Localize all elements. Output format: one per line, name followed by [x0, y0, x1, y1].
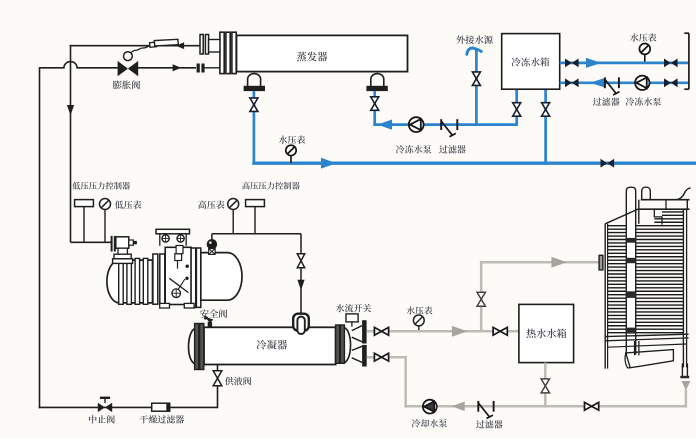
- evaporator right water nozzle: [371, 74, 384, 86]
- pipe: cooling water bottom line: [404, 356, 407, 408]
- label: condenser: [257, 340, 267, 350]
- muffler / check valve on condenser inlet: [293, 314, 309, 331]
- label: chilled water pump (top right): [626, 97, 635, 105]
- tower top deck: [641, 199, 690, 201]
- pipe: suction line bottom horizontal into compressor: [71, 241, 112, 243]
- water pressure gauge on return line: [286, 145, 296, 155]
- pipe: hot water tank bottom drop: [544, 363, 547, 408]
- tower deck slope edge: [605, 209, 638, 224]
- oil separator barrel: [201, 253, 242, 301]
- pipe: evaporator inlet drop: [373, 91, 376, 125]
- stop valve on bottom line: [104, 399, 106, 403]
- water pressure gauge on cooling line: [413, 315, 424, 326]
- safety valve on condenser: [208, 322, 212, 328]
- flow arrow left toward evaporator: [378, 120, 393, 130]
- pipe: chilled water supply line (pump suction): [373, 123, 376, 126]
- compressor suction flange: [111, 236, 113, 252]
- condenser bottom outlet cone nozzle: [352, 346, 362, 350]
- condenser left flange ring: [195, 324, 199, 370]
- tower lower frame rails: [605, 334, 688, 336]
- tower deck step notch: [654, 209, 662, 224]
- valve on top header left: [565, 59, 572, 68]
- condenser left dish head: [189, 329, 195, 364]
- pipe: make-up water drop: [475, 50, 478, 125]
- valve on make-up water line: [472, 72, 480, 86]
- valve on return header left: [565, 78, 572, 87]
- valve on evaporator outlet: [250, 98, 258, 112]
- cooling tower right wall: [682, 209, 684, 367]
- valve on condenser top outlet: [374, 327, 381, 335]
- tower riser pipe U2: [642, 187, 651, 200]
- liquid supply valve under condenser: [217, 365, 219, 409]
- strainer on return header: [604, 77, 606, 88]
- discharge shut-off valve: [297, 254, 304, 268]
- label: water pressure gauge (top right): [630, 33, 639, 41]
- label: cooling water pump: [412, 419, 421, 427]
- flow arrow right to cooling tower: [551, 257, 567, 268]
- header continuation bracket: [688, 33, 690, 89]
- label: chilled water pump: [396, 145, 405, 153]
- flow arrow left on bottom line: [452, 402, 465, 412]
- tower middle leg: [634, 341, 636, 355]
- compressor main housing: [165, 247, 191, 304]
- tower riser pipe U1: [626, 187, 635, 354]
- pipe: chilled water return header: [560, 81, 689, 84]
- evaporator liquid inlet flange: [197, 64, 200, 73]
- evaporator head plates: [220, 32, 224, 73]
- pipe: chilled water main return line: [252, 161, 696, 164]
- compressor mid flange rings: [153, 254, 158, 304]
- label: strainer (top right): [593, 97, 601, 105]
- label: low pressure controller: [72, 182, 80, 190]
- strainer on cooling bottom line: [477, 401, 479, 412]
- expansion valve: [118, 61, 128, 76]
- valve on tank left outlet: [513, 103, 521, 117]
- evaporator suction flange pair: [200, 35, 203, 55]
- compressor motor body: [107, 260, 153, 303]
- label: hot water tank: [526, 329, 536, 338]
- valve on tower riser: [477, 292, 485, 306]
- tower outlet stub: [681, 364, 683, 377]
- water flow switch on condenser: [346, 314, 358, 322]
- evaporator left water nozzle: [248, 74, 261, 86]
- expansion valve sensing head: [124, 52, 133, 61]
- pipe: discharge sensing line horizontal: [212, 233, 301, 235]
- pipe: condenser outlet top line to hot water tank: [367, 330, 519, 333]
- flow arrow down from tower outlet: [682, 381, 691, 391]
- flow arrow down to condenser: [297, 280, 304, 291]
- tower basin pan: [626, 350, 674, 368]
- valve on tank right outlet: [542, 103, 550, 117]
- pipe: suction line horizontal (evaporator to corner): [70, 45, 200, 47]
- discharge service valve on separator: [211, 239, 213, 244]
- condenser top outlet cone nozzle: [352, 326, 362, 331]
- pipe: riser to cooling tower: [480, 261, 483, 331]
- high pressure gauge: [228, 199, 239, 210]
- compressor feet: [160, 303, 170, 308]
- label: water flow switch: [336, 304, 345, 312]
- pipe: tank left outlet drop: [515, 89, 518, 126]
- valve on return header right: [664, 78, 671, 87]
- chilled water pump: [409, 117, 424, 132]
- chilled water tank: [502, 34, 560, 90]
- condenser shell: [204, 327, 336, 364]
- flow arrow down on suction line: [67, 105, 74, 116]
- capillary tube from bulb to expansion valve: [131, 46, 150, 53]
- valve on top header right: [664, 59, 671, 68]
- pipe: discharge line vertical to condenser: [300, 234, 302, 314]
- condenser right dish head: [344, 328, 350, 363]
- flow arrow left on suction line: [176, 42, 184, 49]
- label: strainer (supply line): [439, 145, 447, 153]
- pipe: liquid line horizontal with crossover hump: [40, 62, 118, 68]
- pipe: condenser bottom inlet line: [367, 356, 406, 359]
- tower fan cowl curve: [676, 188, 691, 200]
- flow arrow left on return header: [590, 78, 606, 88]
- hot water tank: [519, 304, 574, 362]
- flow arrow right on return line: [321, 158, 337, 169]
- valve on cooling bottom line right: [585, 402, 592, 410]
- suction elbow cap fitting: [129, 240, 134, 245]
- suction elbow down pipe and collars: [118, 248, 127, 254]
- label: strainer (cooling line): [476, 420, 484, 428]
- valve on condenser bottom inlet: [374, 353, 381, 361]
- label: low pressure gauge: [115, 201, 124, 209]
- cooling tower center channel blank: [627, 224, 635, 354]
- label: high pressure controller: [242, 182, 250, 190]
- chilled water pump top right: [635, 76, 649, 90]
- label: chilled water tank: [512, 57, 521, 66]
- strainer on supply line: [440, 119, 442, 130]
- flow arrow right into evaporator: [173, 64, 182, 71]
- tower riser pipe couplings: [626, 238, 635, 243]
- cooling tower inlet flange: [599, 255, 603, 270]
- pipe: evaporator outlet drop: [253, 91, 256, 163]
- low pressure gauge: [100, 199, 111, 210]
- high pressure controller symbol: [246, 200, 265, 207]
- pipe: bottom liquid line: [39, 406, 218, 408]
- evaporator suction connector piece: [209, 40, 220, 53]
- external water source symbol: [467, 48, 481, 54]
- evaporator shell: [237, 35, 408, 71]
- valve before hot water tank: [493, 327, 500, 335]
- thermal bulb on suction line: [150, 42, 157, 47]
- flow arrow right on top header: [586, 58, 602, 68]
- pipe: liquid line left vertical riser: [39, 67, 41, 408]
- label: high pressure gauge: [198, 200, 206, 208]
- label: water pressure gauge (cooling): [407, 306, 415, 314]
- label: water pressure gauge (return line): [279, 136, 288, 144]
- water pressure gauge top right: [639, 44, 650, 55]
- low pressure controller symbol: [75, 200, 94, 207]
- valve on evaporator inlet: [371, 97, 379, 111]
- valve on tank bottom drop: [541, 379, 549, 393]
- compressor discharge flange rings: [191, 248, 196, 307]
- valve on return line right: [601, 159, 608, 168]
- pipe: tower outlet down leg: [685, 390, 688, 408]
- pipe: suction line vertical drop: [70, 45, 72, 242]
- motor cooling fin bands: [119, 258, 124, 304]
- label: evaporator: [297, 52, 307, 62]
- condenser right tube sheet flanges: [336, 325, 340, 363]
- pipe: tank right outlet drop: [544, 89, 547, 165]
- label: liquid supply valve: [225, 377, 234, 385]
- filter drier on bottom line: [152, 403, 170, 411]
- housing inner details: [175, 254, 182, 261]
- label: stop valve: [89, 415, 97, 423]
- cooling tower left wall: [604, 224, 606, 369]
- label: safety valve: [200, 309, 209, 318]
- label: external water source: [456, 35, 465, 44]
- pipe: chilled water supply header top: [560, 62, 689, 65]
- cooling tower louver fill lines: [662, 211, 683, 213]
- cooling water pump: [423, 400, 437, 414]
- compressor suction elbow body: [116, 237, 129, 248]
- label: filter drier: [140, 415, 148, 423]
- label: expansion valve: [113, 81, 122, 90]
- compressor mounting bracket with bolts: [156, 229, 190, 234]
- flow arrow right on cooling line: [452, 326, 468, 337]
